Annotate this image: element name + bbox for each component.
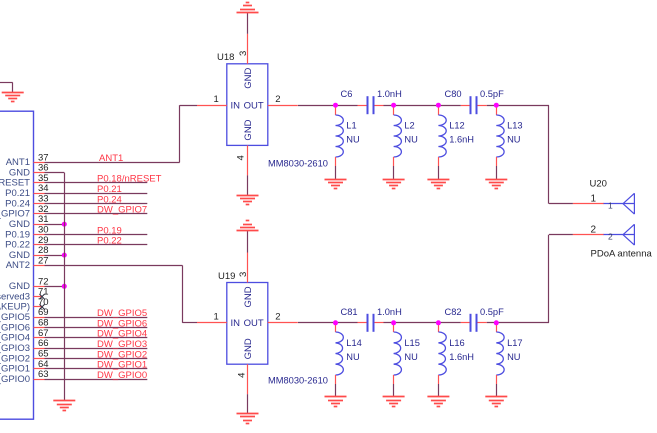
pin 35 number bbox=[38, 173, 49, 184]
junction node L17 bbox=[494, 320, 499, 325]
wire L16 to ground bbox=[438, 384, 440, 397]
antenna 1 pin name bbox=[608, 200, 613, 210]
svg-text:DW_GPIO6: DW_GPIO6 bbox=[0, 322, 30, 333]
svg-text:DW_GPIO6: DW_GPIO6 bbox=[97, 318, 147, 329]
pin 63 stub bbox=[34, 379, 45, 381]
inductor L13 bottom pin bbox=[496, 157, 498, 166]
label L12 value bbox=[449, 135, 474, 145]
svg-text:MM8030-2610: MM8030-2610 bbox=[268, 376, 328, 386]
ground (U19 pin4) bbox=[237, 414, 259, 424]
label 1.0nH row2 bbox=[377, 307, 402, 317]
net label DW_GPIO0 bbox=[97, 370, 147, 381]
label 1.0nH row1 bbox=[377, 89, 402, 99]
ground (L13) bbox=[485, 180, 507, 189]
wire row1 to antenna 1 bbox=[549, 105, 573, 204]
svg-text:NU: NU bbox=[507, 352, 520, 362]
ground (L15) bbox=[383, 397, 405, 407]
antenna 1 symbol bbox=[604, 193, 635, 214]
U18 pin 2 stub bbox=[268, 105, 298, 107]
label L15 bbox=[404, 338, 420, 348]
inductor L15 bbox=[394, 332, 402, 375]
svg-text:2: 2 bbox=[591, 225, 597, 236]
svg-text:3: 3 bbox=[238, 51, 249, 56]
svg-text:1.0nH: 1.0nH bbox=[377, 307, 402, 317]
svg-text:0.5pF: 0.5pF bbox=[480, 89, 504, 99]
pin 33 number bbox=[38, 194, 49, 205]
inductor L15 top pin bbox=[393, 323, 395, 332]
label L13 value bbox=[507, 135, 520, 145]
ground (top-left) bbox=[2, 93, 24, 102]
ground (L17) bbox=[485, 397, 507, 407]
wire pin29 bbox=[45, 244, 148, 246]
pin 37 name ANT1 bbox=[6, 157, 30, 168]
svg-text:NU: NU bbox=[346, 135, 359, 145]
U18 pin 3 stub bbox=[247, 34, 249, 64]
wire U19 pin4 to ground bbox=[247, 394, 249, 413]
net label P0.24 bbox=[97, 194, 122, 205]
wire row2 U-out to node1 bbox=[298, 322, 358, 324]
wire pin30 bbox=[45, 234, 148, 236]
U18 pin 4 number bbox=[235, 155, 246, 160]
pin 35 name nRESET bbox=[0, 178, 30, 189]
pin 63 name DW_GPIO0 bbox=[0, 374, 30, 385]
net label P0.19 bbox=[97, 225, 122, 236]
pin 31 name GND bbox=[9, 219, 30, 230]
svg-text:L1: L1 bbox=[346, 120, 356, 130]
net label P0.21 bbox=[97, 184, 122, 195]
svg-text:OUT: OUT bbox=[244, 101, 264, 112]
wire pin64 bbox=[45, 368, 148, 370]
ground (U19 pin3, inverted) bbox=[237, 221, 259, 231]
svg-text:GND: GND bbox=[243, 338, 254, 359]
U19 IN OUT text bbox=[231, 318, 264, 329]
svg-text:PDoA antenna: PDoA antenna bbox=[591, 249, 653, 260]
pin 31 stub bbox=[34, 224, 45, 226]
ground (L14) bbox=[325, 397, 347, 407]
U20 label bbox=[590, 179, 607, 190]
wire pin63 bbox=[45, 379, 148, 381]
wire pin66 bbox=[45, 348, 148, 350]
pin 37 number bbox=[38, 152, 49, 163]
svg-text:NU: NU bbox=[346, 352, 359, 362]
svg-text:U20: U20 bbox=[590, 179, 607, 190]
label 0.5pF row1 bbox=[480, 89, 504, 99]
antenna 2 pin name bbox=[608, 231, 613, 241]
svg-text:C81: C81 bbox=[341, 307, 358, 317]
net label P0.18/nRESET bbox=[97, 174, 162, 185]
pin 72 name GND bbox=[9, 281, 30, 292]
wire to top-left ground bbox=[0, 83, 13, 93]
pin 66 number bbox=[38, 338, 49, 349]
wire pin33 bbox=[45, 203, 148, 205]
pin 70 no-connect X bbox=[40, 304, 45, 309]
junction node L1 bbox=[333, 103, 338, 108]
label L2 bbox=[404, 120, 414, 130]
antenna U20 pin 2 stub bbox=[573, 234, 604, 236]
label L16 bbox=[449, 338, 465, 348]
wire pin35 bbox=[45, 182, 148, 184]
svg-text:DW_GPIO0: DW_GPIO0 bbox=[97, 370, 147, 381]
svg-text:L14: L14 bbox=[346, 338, 362, 348]
inductor L14 bbox=[336, 332, 344, 375]
inductor L16 top pin bbox=[438, 323, 440, 332]
svg-text:4: 4 bbox=[237, 373, 248, 378]
svg-text:1: 1 bbox=[608, 200, 613, 210]
label L17 bbox=[507, 338, 523, 348]
svg-text:U19: U19 bbox=[218, 271, 235, 282]
svg-text:GND: GND bbox=[243, 68, 254, 89]
inductor L14 top pin bbox=[335, 323, 337, 332]
wire row1 U-out to node1 bbox=[298, 105, 358, 107]
label L1 value bbox=[346, 135, 359, 145]
pin 68 number bbox=[38, 318, 49, 329]
ground (U18 pin4) bbox=[237, 196, 259, 205]
svg-text:L12: L12 bbox=[449, 120, 465, 130]
pin 29 stub bbox=[34, 244, 45, 246]
wire pin28 GND to rail bbox=[45, 255, 65, 257]
pin 72 stub bbox=[34, 286, 45, 288]
wire L15 to ground bbox=[393, 384, 395, 397]
capacitor C81 pins bbox=[358, 322, 384, 324]
U19 GND text top bbox=[243, 286, 254, 307]
net label DW_GPIO7 bbox=[97, 205, 147, 216]
pin 27 stub bbox=[34, 265, 45, 267]
pin 27 number bbox=[38, 255, 49, 266]
U19 pin 1 number bbox=[214, 312, 219, 323]
pin 68 stub bbox=[34, 327, 45, 329]
pin 36 stub bbox=[34, 172, 45, 174]
label C80 bbox=[445, 89, 462, 99]
capacitor C81 bbox=[368, 314, 374, 332]
inductor L15 bottom pin bbox=[393, 375, 395, 384]
U18 IN OUT text bbox=[231, 101, 264, 112]
svg-text:1.6nH: 1.6nH bbox=[449, 352, 474, 362]
svg-text:68: 68 bbox=[38, 318, 49, 329]
inductor L1 bbox=[336, 115, 344, 157]
inductor L12 bbox=[438, 115, 446, 157]
svg-text:2: 2 bbox=[608, 231, 613, 241]
wire L17 to ground bbox=[496, 384, 498, 397]
wire L14 to ground bbox=[335, 384, 337, 397]
U19 value MM8030-2610 bbox=[268, 376, 328, 386]
pin 34 name P0.21 bbox=[5, 188, 30, 199]
pin 68 name DW_GPIO6 bbox=[0, 322, 30, 333]
svg-text:ANT2: ANT2 bbox=[6, 260, 30, 271]
svg-text:L16: L16 bbox=[449, 338, 465, 348]
svg-text:C80: C80 bbox=[445, 89, 462, 99]
junction node L14 bbox=[333, 320, 338, 325]
inductor L16 bbox=[438, 332, 446, 375]
wire pin65 bbox=[45, 358, 148, 360]
capacitor C82 bbox=[471, 314, 477, 332]
ground (L1) bbox=[325, 180, 347, 189]
pin 64 number bbox=[38, 359, 49, 370]
U18 pin 1 stub bbox=[197, 105, 227, 107]
svg-text:63: 63 bbox=[38, 369, 49, 380]
U19 pin 4 stub bbox=[247, 364, 249, 394]
svg-text:L2: L2 bbox=[404, 120, 414, 130]
antenna 2 symbol bbox=[604, 224, 635, 245]
U19 pin 4 number bbox=[237, 373, 248, 378]
U18 label bbox=[217, 52, 234, 63]
pin 32 stub bbox=[34, 213, 45, 215]
net label ANT1 bbox=[99, 153, 123, 164]
inductor L2 top pin bbox=[393, 105, 395, 115]
GND rail wire bbox=[64, 173, 66, 401]
U18 GND text bottom bbox=[243, 119, 254, 140]
pin 35 stub bbox=[34, 182, 45, 184]
U18 pin 3 number bbox=[238, 51, 249, 56]
pin 63 number bbox=[38, 369, 49, 380]
pin 30 number bbox=[38, 225, 49, 236]
wire row1 node4 to corner bbox=[487, 105, 549, 107]
pin 71 stub bbox=[34, 296, 43, 298]
svg-text:2: 2 bbox=[275, 312, 280, 323]
inductor L13 bbox=[496, 115, 504, 157]
wire pin67 bbox=[45, 337, 148, 339]
pin 66 stub bbox=[34, 348, 45, 350]
label 0.5pF row2 bbox=[480, 307, 504, 317]
wire pin31 GND to rail bbox=[45, 224, 65, 226]
pin 69 name DW_GPIO5 bbox=[0, 312, 30, 323]
label L15 value bbox=[404, 352, 417, 362]
pin 65 number bbox=[38, 349, 49, 360]
svg-text:P0.24: P0.24 bbox=[97, 194, 122, 205]
svg-text:MM8030-2610: MM8030-2610 bbox=[268, 158, 328, 168]
pin 65 stub bbox=[34, 358, 45, 360]
junction node L16 bbox=[436, 320, 441, 325]
junction node L12 bbox=[436, 103, 441, 108]
capacitor C80 bbox=[471, 96, 477, 114]
wire pin32 bbox=[45, 213, 148, 215]
IC U? body (large component, left edge off-canvas) bbox=[0, 111, 34, 419]
antenna 2 pin number bbox=[591, 225, 597, 236]
pin 31 number bbox=[38, 214, 49, 225]
ground (L16) bbox=[427, 397, 449, 407]
inductor L16 bottom pin bbox=[438, 375, 440, 384]
svg-text:1: 1 bbox=[591, 194, 597, 205]
label L14 value bbox=[346, 352, 359, 362]
pin 71 number bbox=[38, 287, 49, 298]
inductor L13 top pin bbox=[496, 105, 498, 115]
pin 32 number bbox=[38, 204, 49, 215]
filter U19 body bbox=[227, 283, 268, 365]
pin 29 name P0.22 bbox=[5, 240, 30, 251]
junction pin28 bbox=[62, 253, 67, 258]
inductor L12 top pin bbox=[438, 105, 440, 115]
wire L1 to ground bbox=[335, 166, 337, 179]
svg-text:GND: GND bbox=[243, 119, 254, 140]
label L13 bbox=[507, 120, 523, 130]
pin 28 name GND bbox=[9, 250, 30, 261]
pin 64 stub bbox=[34, 368, 45, 370]
wire L13 to ground bbox=[496, 166, 498, 179]
ground (L2) bbox=[383, 180, 405, 189]
wire U18 pin4 to ground bbox=[247, 175, 249, 195]
svg-text:1: 1 bbox=[214, 94, 219, 105]
pin 70 number bbox=[38, 297, 49, 308]
svg-text:NU: NU bbox=[404, 135, 417, 145]
label L14 bbox=[346, 338, 362, 348]
svg-text:GND: GND bbox=[243, 286, 254, 307]
svg-text:33: 33 bbox=[38, 194, 49, 205]
capacitor C82 pins bbox=[461, 322, 487, 324]
pin 37 stub bbox=[34, 162, 45, 164]
wire ANT2 bbox=[45, 265, 198, 322]
svg-text:4: 4 bbox=[235, 155, 246, 160]
pin 67 stub bbox=[34, 337, 45, 339]
svg-text:C6: C6 bbox=[341, 89, 353, 99]
pin 29 number bbox=[38, 235, 49, 246]
pin 34 stub bbox=[34, 193, 45, 195]
wire pin34 bbox=[45, 193, 148, 195]
svg-text:1: 1 bbox=[214, 312, 219, 323]
junction node L15 bbox=[391, 320, 396, 325]
label L1 bbox=[346, 120, 356, 130]
svg-text:1.0nH: 1.0nH bbox=[377, 89, 402, 99]
svg-text:OUT: OUT bbox=[244, 318, 264, 329]
wire pin68 bbox=[45, 327, 148, 329]
capacitor C6 pins bbox=[358, 105, 384, 107]
net label DW_GPIO3 bbox=[97, 339, 147, 350]
net label DW_GPIO5 bbox=[97, 308, 147, 319]
svg-text:27: 27 bbox=[38, 255, 49, 266]
svg-text:IN: IN bbox=[231, 318, 241, 329]
ground (L12) bbox=[427, 180, 449, 189]
U19 pin 2 number bbox=[275, 312, 280, 323]
wire row2 node4 to corner bbox=[487, 322, 549, 324]
capacitor C6 bbox=[368, 96, 374, 114]
antenna U20 pin 1 stub bbox=[573, 203, 604, 205]
pin 71 no-connect X bbox=[40, 294, 45, 299]
pin 27 name ANT2 bbox=[6, 260, 30, 271]
pin 36 number bbox=[38, 163, 49, 174]
svg-text:DW_GPIO0: DW_GPIO0 bbox=[0, 374, 30, 385]
pin 36 name GND bbox=[9, 167, 30, 178]
pin 33 name P0.24 bbox=[5, 198, 30, 209]
svg-text:P0.22: P0.22 bbox=[97, 236, 122, 247]
U19 pin 3 stub bbox=[247, 253, 249, 283]
pin 72 number bbox=[38, 276, 49, 287]
U19 pin 1 stub bbox=[197, 322, 227, 324]
junction pin72 bbox=[62, 284, 67, 289]
wire row1 node2 to node3 bbox=[384, 105, 461, 107]
wire pin69 bbox=[45, 317, 148, 319]
inductor L12 bottom pin bbox=[438, 157, 440, 166]
U19 pin 3 number bbox=[238, 272, 249, 277]
wire L12 to ground bbox=[438, 166, 440, 179]
U19 label bbox=[218, 271, 235, 282]
wire pin72 GND to rail bbox=[45, 286, 65, 288]
U19 GND text bottom bbox=[243, 338, 254, 359]
net label DW_GPIO2 bbox=[97, 349, 147, 360]
wire U18 pin3 to ground bbox=[247, 12, 249, 34]
label C82 bbox=[445, 307, 462, 317]
svg-text:P0.24: P0.24 bbox=[5, 198, 30, 209]
label C6 bbox=[341, 89, 353, 99]
inductor L17 top pin bbox=[496, 323, 498, 332]
pin 32 name DW_GPIO7 bbox=[0, 209, 30, 220]
pin 67 name DW_GPIO4 bbox=[0, 333, 30, 344]
pin 70 stub bbox=[34, 306, 43, 308]
svg-text:1.6nH: 1.6nH bbox=[449, 135, 474, 145]
pin 69 number bbox=[38, 307, 49, 318]
inductor L17 bottom pin bbox=[496, 375, 498, 384]
pin 28 number bbox=[38, 245, 49, 256]
U18 value MM8030-2610 bbox=[268, 158, 328, 168]
pin 66 name DW_GPIO3 bbox=[0, 343, 30, 354]
junction pin31 bbox=[62, 222, 67, 227]
U19 pin 2 stub bbox=[268, 322, 298, 324]
capacitor C80 pins bbox=[461, 105, 487, 107]
pin 33 stub bbox=[34, 203, 45, 205]
U18 pin 2 number bbox=[275, 94, 280, 105]
label L17 value bbox=[507, 352, 520, 362]
inductor L2 bbox=[394, 115, 402, 157]
svg-text:IN: IN bbox=[231, 101, 241, 112]
svg-text:L17: L17 bbox=[507, 338, 523, 348]
PDoA antenna label bbox=[591, 249, 653, 260]
U18 pin 1 number bbox=[214, 94, 219, 105]
svg-text:NU: NU bbox=[404, 352, 417, 362]
pin 70 name (WAKEUP) bbox=[0, 302, 30, 313]
inductor L14 bottom pin bbox=[335, 375, 337, 384]
pin 34 number bbox=[38, 183, 49, 194]
net label P0.22 bbox=[97, 236, 122, 247]
pin 65 name DW_GPIO2 bbox=[0, 353, 30, 364]
svg-text:2: 2 bbox=[275, 94, 280, 105]
filter U18 body bbox=[227, 64, 268, 146]
inductor L2 bottom pin bbox=[393, 157, 395, 166]
junction node L13 bbox=[494, 103, 499, 108]
net label DW_GPIO6 bbox=[97, 318, 147, 329]
wire ANT1 bbox=[45, 105, 198, 162]
U18 GND text top bbox=[243, 68, 254, 89]
svg-text:DW_GPIO7: DW_GPIO7 bbox=[97, 205, 147, 216]
wire row2 to antenna 2 bbox=[549, 235, 573, 323]
svg-text:3: 3 bbox=[238, 272, 249, 277]
svg-text:L15: L15 bbox=[404, 338, 420, 348]
svg-text:NU: NU bbox=[507, 135, 520, 145]
label L12 bbox=[449, 120, 465, 130]
pin 69 stub bbox=[34, 317, 45, 319]
svg-text:U18: U18 bbox=[217, 52, 234, 63]
pin 30 name P0.19 bbox=[5, 229, 30, 240]
antenna 1 pin number bbox=[591, 194, 597, 205]
pin 30 stub bbox=[34, 234, 45, 236]
junction node L2 bbox=[391, 103, 396, 108]
pin 67 number bbox=[38, 328, 49, 339]
svg-text:L13: L13 bbox=[507, 120, 523, 130]
net label DW_GPIO1 bbox=[97, 360, 147, 371]
label C81 bbox=[341, 307, 358, 317]
ground (U18 pin3, inverted) bbox=[237, 3, 259, 13]
inductor L1 top pin bbox=[335, 105, 337, 115]
wire L2 to ground bbox=[393, 166, 395, 179]
inductor L1 bottom pin bbox=[335, 157, 337, 166]
net label DW_GPIO4 bbox=[97, 329, 147, 340]
pin 28 stub bbox=[34, 255, 45, 257]
wire U19 pin3 to ground bbox=[247, 231, 249, 253]
pin 71 name Reserved3 bbox=[0, 291, 30, 302]
svg-text:C82: C82 bbox=[445, 307, 462, 317]
wire pin36 GND to rail bbox=[45, 172, 65, 174]
wire row2 node2 to node3 bbox=[384, 322, 461, 324]
label L2 value bbox=[404, 135, 417, 145]
pin 64 name DW_GPIO1 bbox=[0, 364, 30, 375]
svg-text:0.5pF: 0.5pF bbox=[480, 307, 504, 317]
inductor L17 bbox=[496, 332, 504, 375]
